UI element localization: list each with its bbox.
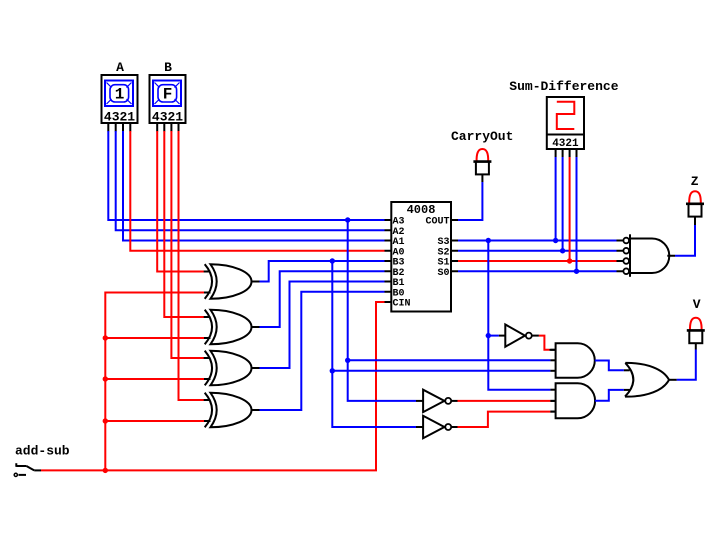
svg-text:COUT: COUT: [425, 217, 449, 228]
svg-text:add-sub: add-sub: [15, 443, 70, 458]
svg-text:Sum-Difference: Sum-Difference: [509, 79, 618, 94]
digit 2 segments in display: [557, 102, 575, 129]
wire add-sub branch to XOR3 input: [105, 378, 204, 380]
4008 pin labels right: [425, 217, 449, 279]
xor gate X2 (bit2): [204, 310, 260, 345]
node S3/NOT junction: [486, 333, 491, 338]
wire XOR3 output to 4008 B1: [260, 282, 385, 369]
wire A3 (A pin4 to 4008 A3): [108, 131, 384, 220]
wire A2 (A pin3 to 4008 A2): [116, 131, 385, 230]
wire COUT to CarryOut LED: [458, 182, 482, 220]
input A (hex keypad, value 1): [102, 60, 138, 124]
wire S3 net (4008 S3 to Z gate): [458, 240, 617, 242]
svg-text:A: A: [116, 60, 124, 75]
input B (hex keypad, value F): [150, 60, 186, 124]
wire display pin2 to S1: [569, 157, 571, 261]
node display/S1 junction: [567, 258, 572, 263]
node A3 junction: [345, 217, 350, 222]
svg-text:1: 1: [115, 86, 125, 104]
svg-text:4321: 4321: [152, 109, 183, 124]
label CarryOut: [451, 129, 513, 144]
label Sum-Difference: [509, 79, 618, 94]
wire B0 (B pin1 to XOR4 input): [179, 131, 205, 400]
node B3 junction: [330, 258, 335, 263]
label V: [693, 297, 701, 312]
wire OR output to V LED: [677, 350, 696, 380]
wire A0 (A pin1 to 4008 A0): [130, 131, 384, 251]
inverter U3: [505, 324, 532, 346]
svg-text:CIN: CIN: [393, 299, 411, 310]
V LED stub: [695, 343, 697, 350]
wire XOR4 output to 4008 B0: [260, 292, 385, 410]
xor gate X3 (bit1): [204, 351, 260, 386]
svg-text:B: B: [164, 60, 172, 75]
wire XOR2 output to 4008 B2: [260, 271, 385, 327]
LED CarryOut: [473, 149, 491, 174]
wire Z gate output to Z LED: [675, 225, 695, 256]
wire add-sub branch up to XOR1 input: [105, 293, 204, 471]
4008 adder chip U1: [391, 202, 451, 312]
Z LED stub: [694, 217, 696, 225]
svg-text:S0: S0: [437, 268, 449, 279]
gate U2 AND with inverted inputs (Z detect): [617, 234, 676, 276]
wire B2 (B pin3 to XOR2 input): [164, 131, 204, 317]
wire A3 branch to AND U4 middle input: [348, 359, 551, 361]
wire S3 branch down (to NOT and AND gates): [488, 241, 550, 390]
wire U4 output to OR gate: [595, 361, 624, 371]
AND gate U6 (bottom): [550, 383, 595, 418]
wire B1 (B pin2 to XOR3 input): [171, 131, 204, 358]
svg-text:F: F: [163, 86, 173, 104]
4008 pin labels left: [393, 217, 411, 310]
svg-text:Z: Z: [691, 174, 699, 189]
wire U3 output to AND U4: [532, 336, 556, 350]
LED Z: [686, 191, 704, 216]
wire B3 branch to AND U4 bottom input: [332, 370, 550, 372]
node display/S3 junction: [553, 238, 558, 243]
wire add-sub branch to XOR4 input: [105, 420, 204, 422]
svg-text:4008: 4008: [407, 203, 436, 217]
wire A1 (A pin2 to 4008 A1): [123, 131, 385, 241]
svg-text:CarryOut: CarryOut: [451, 129, 513, 144]
node A3/AND junction: [345, 358, 350, 363]
svg-text:4321: 4321: [552, 138, 579, 150]
wire XOR1 output to 4008 B3: [260, 261, 385, 282]
wire S1 net: [458, 260, 617, 262]
wire U6 output to OR gate: [595, 390, 624, 401]
switch add-sub: [14, 463, 41, 476]
xor gate X1 (bit3): [204, 264, 260, 299]
node add-sub/XOR4 junction: [103, 418, 108, 423]
svg-text:4321: 4321: [104, 109, 135, 124]
wire A3 branch down: [348, 220, 416, 401]
OR gate U7 (V detect): [624, 363, 677, 397]
wire S2 net: [458, 250, 617, 252]
NOT U3 input stub: [499, 335, 505, 337]
node add-sub/XOR2 junction: [103, 335, 108, 340]
inverter U6i (NOT B3): [416, 416, 451, 438]
wire add-sub branch to XOR2 input: [105, 337, 204, 339]
input A pin stubs: [108, 123, 130, 132]
wire B3 branch down: [332, 261, 416, 427]
wire display pin4 to S3: [555, 157, 557, 241]
wire S0 net: [458, 270, 617, 272]
wire NOT U3 input tap: [488, 335, 499, 337]
4008 right pin stubs: [451, 220, 458, 271]
AND gate U4 (top): [550, 343, 594, 377]
label add-sub: [15, 443, 70, 458]
CarryOut LED stub: [481, 175, 483, 183]
LED V: [687, 318, 705, 343]
wire display pin1 to S0: [576, 157, 578, 271]
svg-text:V: V: [693, 297, 701, 312]
wire U5 output to AND U6 middle input: [451, 400, 555, 402]
node display/S2 junction: [560, 248, 565, 253]
node add-sub junction at switch run: [103, 468, 108, 473]
wire display pin3 to S2: [562, 157, 564, 251]
label Z: [691, 174, 699, 189]
node S3 branch junction: [486, 238, 491, 243]
node B3/AND junction: [330, 368, 335, 373]
seven-segment display Sum-Difference: [547, 97, 584, 150]
wire B3 (B pin4 to XOR1 input): [157, 131, 204, 272]
input B pin stubs: [157, 123, 178, 132]
node display/S0 junction: [574, 269, 579, 274]
wire NOT B3 output to AND U6 bottom input: [451, 412, 555, 427]
node add-sub/XOR3 junction: [103, 376, 108, 381]
xor gate X4 (bit0): [204, 393, 260, 428]
4008 left pin stubs: [385, 220, 392, 302]
wire add-sub net (switch to CIN riser): [41, 302, 385, 470]
inverter U5 (NOT A3): [416, 390, 451, 412]
display pin stubs: [556, 149, 577, 157]
